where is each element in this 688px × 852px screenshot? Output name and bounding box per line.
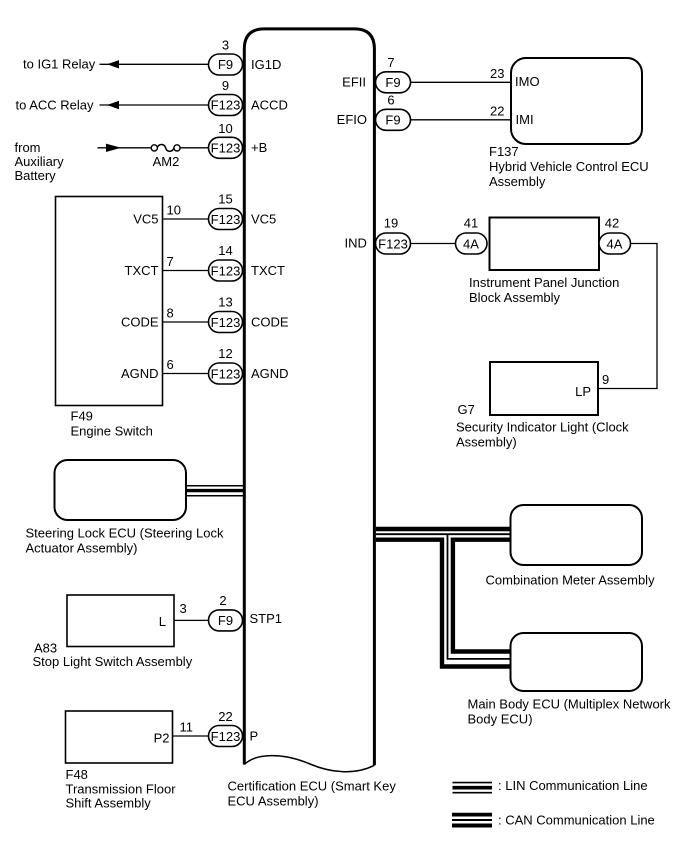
wire STP1 bbox=[174, 619, 209, 621]
svg-text:F123: F123 bbox=[211, 98, 241, 113]
svg-text:Auxiliary: Auxiliary bbox=[15, 154, 65, 169]
svg-text:14: 14 bbox=[218, 243, 232, 258]
svg-text:10: 10 bbox=[218, 121, 232, 136]
svg-text:9: 9 bbox=[602, 372, 609, 387]
svg-text:AM2: AM2 bbox=[153, 154, 180, 169]
connector F123 pin 12 bbox=[209, 363, 243, 384]
LIN line steering lock to ECU bbox=[186, 485, 244, 487]
svg-text:LP: LP bbox=[575, 384, 591, 399]
svg-text:Actuator Assembly): Actuator Assembly) bbox=[26, 541, 138, 556]
svg-text:7: 7 bbox=[167, 254, 174, 269]
svg-text:F9: F9 bbox=[385, 113, 400, 128]
connector F123 pin 15 bbox=[209, 209, 243, 230]
svg-text:6: 6 bbox=[167, 357, 174, 372]
svg-text:AGND: AGND bbox=[121, 366, 159, 381]
svg-text:: LIN Communication Line: : LIN Communication Line bbox=[498, 778, 648, 793]
legend LIN symbol bbox=[453, 782, 493, 784]
svg-text:IND: IND bbox=[345, 236, 367, 251]
arrow to IG1 Relay bbox=[107, 60, 119, 68]
svg-text:from: from bbox=[15, 140, 41, 155]
svg-text:F48: F48 bbox=[66, 767, 88, 782]
component F48 Transmission Floor Shift box bbox=[66, 711, 173, 763]
svg-text:F123: F123 bbox=[211, 366, 241, 381]
svg-text:10: 10 bbox=[167, 203, 181, 218]
connector 4A pin 41 bbox=[456, 233, 488, 254]
connector F9 pin 7 bbox=[376, 72, 411, 93]
svg-text:EFII: EFII bbox=[342, 74, 366, 89]
svg-text:P2: P2 bbox=[154, 731, 170, 746]
svg-text:IMI: IMI bbox=[516, 112, 534, 127]
svg-text:VC5: VC5 bbox=[251, 211, 276, 226]
svg-text:TXCT: TXCT bbox=[251, 263, 285, 278]
ECU bottom break wave bbox=[244, 756, 374, 772]
svg-text:4A: 4A bbox=[463, 236, 479, 251]
connector F123 pin 9 bbox=[209, 95, 243, 116]
arrow from Auxiliary Battery bbox=[106, 144, 121, 152]
svg-text:G7: G7 bbox=[458, 402, 475, 417]
svg-text:F49: F49 bbox=[71, 409, 93, 424]
svg-text:IG1D: IG1D bbox=[251, 57, 281, 72]
svg-text:Engine Switch: Engine Switch bbox=[71, 424, 153, 439]
svg-text:19: 19 bbox=[384, 216, 398, 231]
svg-text:F123: F123 bbox=[211, 141, 241, 156]
wire IND to 4A bbox=[411, 243, 456, 245]
wire CODE bbox=[163, 321, 209, 323]
svg-text:7: 7 bbox=[387, 55, 394, 70]
svg-text:Steering Lock ECU (Steering Lo: Steering Lock ECU (Steering Lock bbox=[26, 526, 224, 541]
component Steering Lock ECU box bbox=[55, 460, 187, 520]
svg-text:F123: F123 bbox=[211, 729, 241, 744]
svg-text:Battery: Battery bbox=[15, 168, 57, 183]
connector F123 pin 14 bbox=[209, 260, 243, 281]
svg-text:L: L bbox=[159, 614, 166, 629]
wire 4A to Security Indicator Light bbox=[598, 244, 657, 389]
svg-text:23: 23 bbox=[490, 66, 504, 81]
svg-text:22: 22 bbox=[490, 103, 504, 118]
svg-text:+B: +B bbox=[251, 140, 267, 155]
svg-text:F9: F9 bbox=[385, 75, 400, 90]
ECU U1 Certification ECU body outline bbox=[244, 29, 374, 765]
connector F9 pin 3 bbox=[209, 54, 243, 75]
svg-text:AGND: AGND bbox=[251, 366, 289, 381]
svg-text:TXCT: TXCT bbox=[125, 263, 159, 278]
fuse AM2 bbox=[151, 145, 157, 151]
svg-text:Main Body ECU (Multiplex Netwo: Main Body ECU (Multiplex Network bbox=[468, 697, 672, 712]
svg-text:to ACC Relay: to ACC Relay bbox=[16, 98, 95, 113]
component G7 Security Indicator Light box bbox=[490, 362, 598, 415]
component Instrument Panel Junction Block box bbox=[490, 218, 600, 271]
connector F123 pin 13 bbox=[209, 312, 243, 333]
component F137 Hybrid Vehicle Control ECU box bbox=[511, 58, 642, 144]
wire EFIO to IMI bbox=[411, 119, 512, 121]
svg-text:F9: F9 bbox=[218, 57, 233, 72]
CAN bus horizontal thick top bbox=[376, 527, 511, 531]
svg-text:4A: 4A bbox=[607, 236, 623, 251]
svg-text:8: 8 bbox=[167, 306, 174, 321]
svg-text:ACCD: ACCD bbox=[251, 97, 288, 112]
svg-text:Block Assembly: Block Assembly bbox=[469, 290, 561, 305]
wire AGND bbox=[163, 373, 209, 375]
svg-text:9: 9 bbox=[222, 78, 229, 93]
component F49 Engine Switch box bbox=[56, 197, 163, 406]
svg-text:Body ECU): Body ECU) bbox=[468, 712, 533, 727]
svg-text:13: 13 bbox=[218, 295, 232, 310]
svg-text:Combination Meter Assembly: Combination Meter Assembly bbox=[486, 573, 656, 588]
svg-text:: CAN Communication Line: : CAN Communication Line bbox=[498, 813, 655, 828]
svg-text:EFIO: EFIO bbox=[337, 112, 367, 127]
CAN bus inner thick branch bbox=[453, 540, 511, 652]
svg-text:F123: F123 bbox=[211, 212, 241, 227]
svg-text:F123: F123 bbox=[211, 263, 241, 278]
svg-text:Security Indicator Light (Cloc: Security Indicator Light (Clock bbox=[456, 420, 629, 435]
connector 4A pin 42 bbox=[599, 233, 631, 254]
svg-text:CODE: CODE bbox=[251, 314, 289, 329]
CAN bus outer thick branch bbox=[376, 540, 511, 667]
svg-text:P: P bbox=[250, 729, 259, 744]
CAN bus thin branch bbox=[448, 534, 511, 659]
svg-text:22: 22 bbox=[218, 709, 232, 724]
wire IG1D to IG1 Relay bbox=[100, 63, 209, 65]
svg-text:11: 11 bbox=[180, 720, 194, 735]
wire TXCT bbox=[163, 270, 209, 272]
svg-text:Assembly: Assembly bbox=[489, 174, 546, 189]
wire ACCD to ACC Relay bbox=[100, 104, 209, 106]
svg-text:F123: F123 bbox=[378, 236, 408, 251]
CAN bus horizontal thin middle bbox=[376, 533, 511, 535]
arrow to ACC Relay bbox=[107, 101, 119, 109]
svg-text:41: 41 bbox=[464, 216, 478, 231]
svg-text:Instrument Panel Junction: Instrument Panel Junction bbox=[469, 275, 619, 290]
component Combination Meter Assembly box bbox=[511, 505, 643, 565]
svg-text:Shift Assembly: Shift Assembly bbox=[66, 795, 152, 810]
svg-text:2: 2 bbox=[219, 593, 226, 608]
svg-text:STP1: STP1 bbox=[250, 611, 283, 626]
svg-text:ECU Assembly): ECU Assembly) bbox=[228, 794, 319, 809]
svg-text:Certification ECU (Smart Key: Certification ECU (Smart Key bbox=[228, 779, 397, 794]
svg-text:VC5: VC5 bbox=[133, 211, 158, 226]
connector F123 pin 19 bbox=[376, 233, 411, 254]
wire EFII to IMO bbox=[411, 81, 512, 83]
svg-text:42: 42 bbox=[605, 216, 619, 231]
connector F9 pin 2 bbox=[209, 610, 243, 631]
svg-text:Assembly): Assembly) bbox=[456, 435, 517, 450]
component Main Body ECU box bbox=[511, 633, 643, 691]
svg-text:3: 3 bbox=[222, 38, 229, 53]
svg-text:IMO: IMO bbox=[515, 74, 540, 89]
connector F9 pin 6 bbox=[376, 109, 411, 130]
component A83 Stop Light Switch box bbox=[67, 595, 174, 647]
svg-text:F123: F123 bbox=[211, 315, 241, 330]
wire VC5 bbox=[163, 218, 209, 220]
svg-text:6: 6 bbox=[387, 92, 394, 107]
svg-text:F9: F9 bbox=[218, 613, 233, 628]
svg-text:CODE: CODE bbox=[121, 314, 159, 329]
svg-text:12: 12 bbox=[218, 346, 232, 361]
wire P bbox=[173, 735, 209, 737]
svg-text:F137: F137 bbox=[489, 144, 519, 159]
svg-text:Transmission Floor: Transmission Floor bbox=[66, 782, 177, 797]
svg-text:3: 3 bbox=[180, 601, 187, 616]
connector F123 pin 10 bbox=[209, 137, 243, 158]
svg-text:to IG1 Relay: to IG1 Relay bbox=[23, 57, 96, 72]
svg-text:Hybrid Vehicle Control ECU: Hybrid Vehicle Control ECU bbox=[489, 159, 649, 174]
legend CAN symbol bbox=[452, 813, 492, 817]
connector F123 pin 22 bbox=[209, 726, 243, 747]
svg-text:15: 15 bbox=[218, 192, 232, 207]
svg-text:Stop Light Switch Assembly: Stop Light Switch Assembly bbox=[33, 654, 193, 669]
wire +B from Auxiliary Battery bbox=[98, 147, 152, 149]
